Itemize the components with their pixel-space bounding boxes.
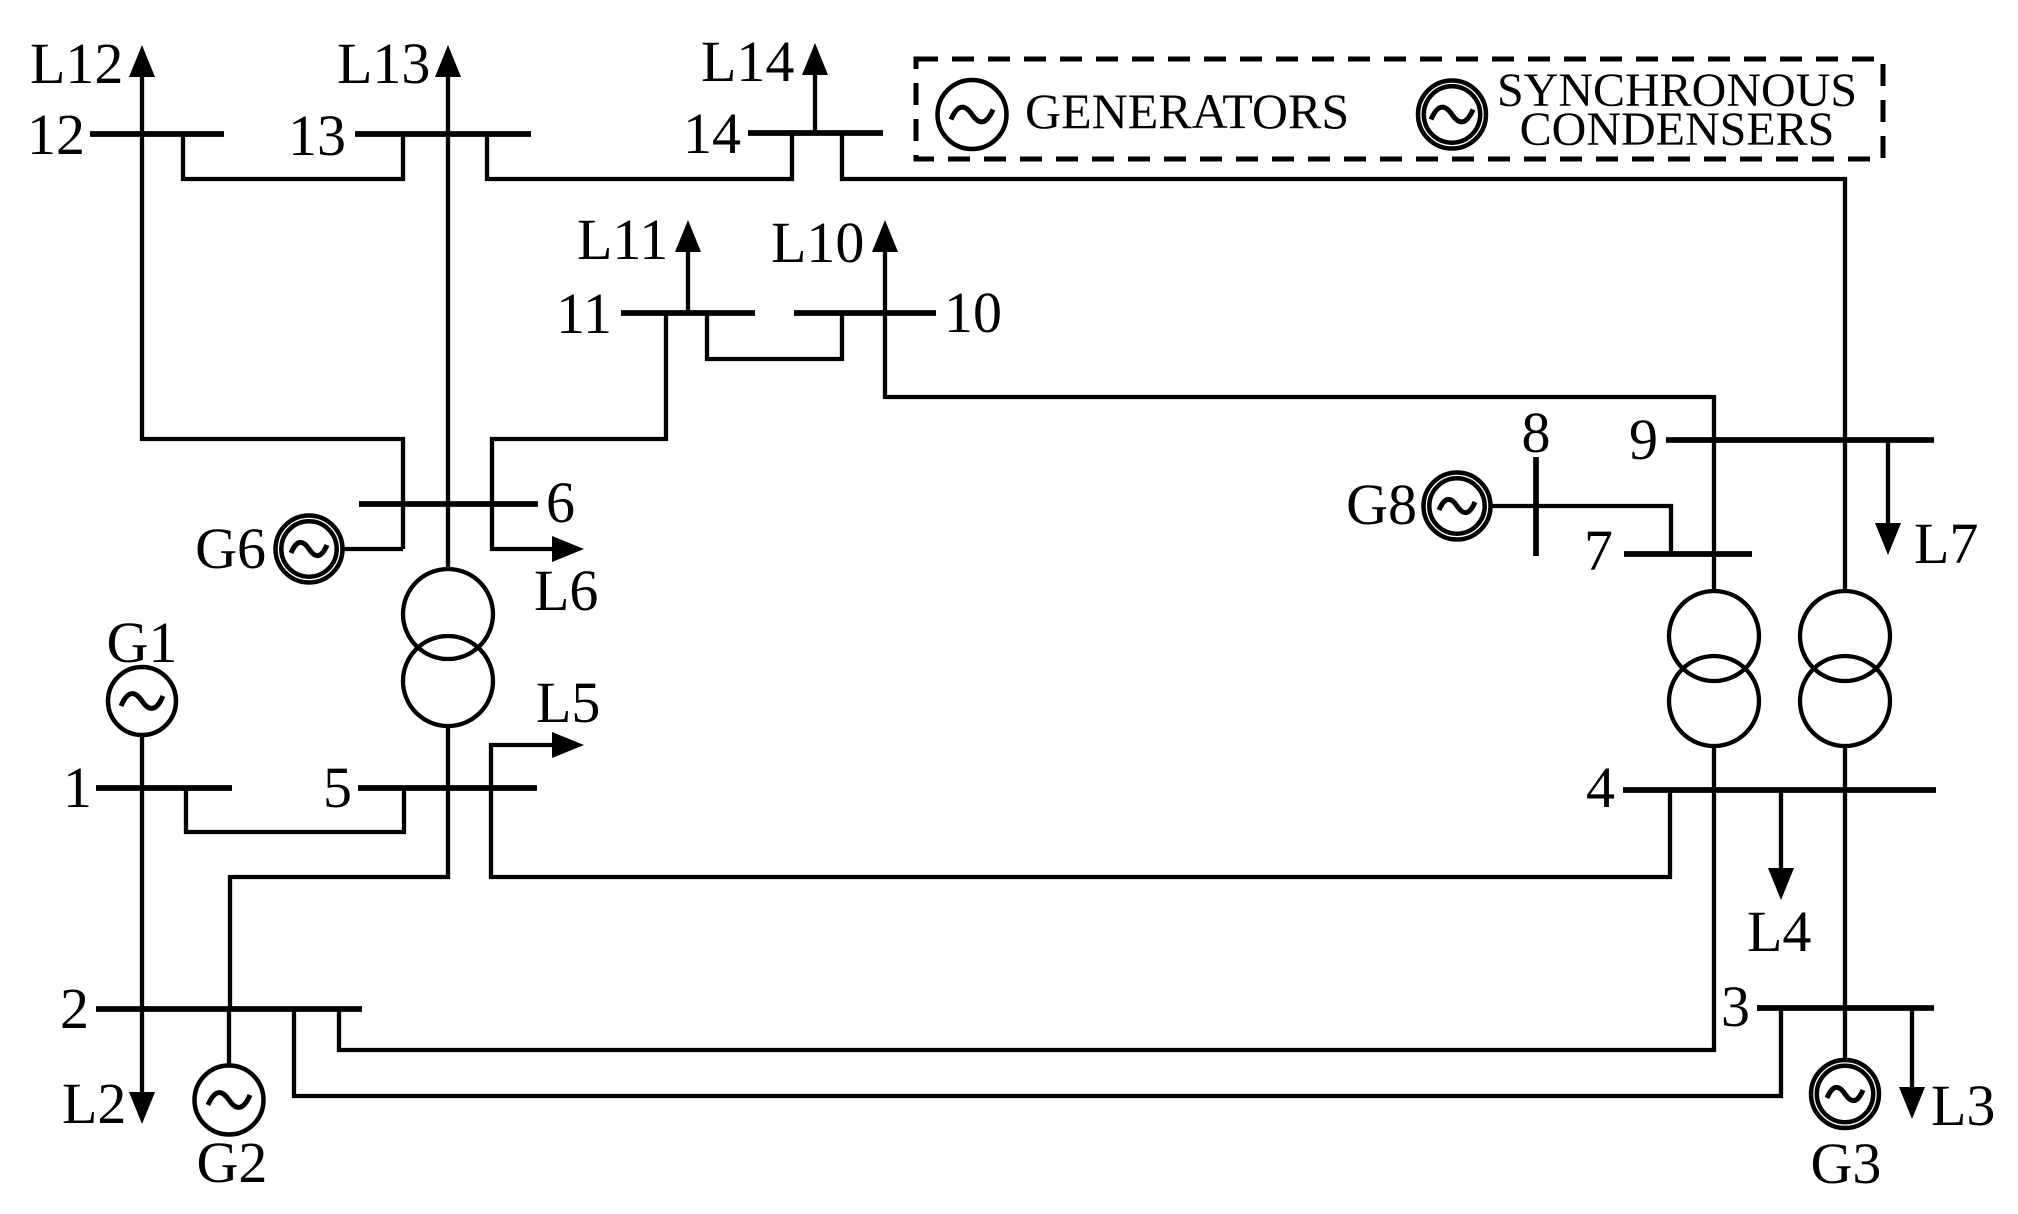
load L10 arrow <box>883 250 887 313</box>
transformer 4-7 <box>1669 591 1759 681</box>
synchronous condenser G8 <box>1424 473 1491 540</box>
wire bus 13 to transformer 5-6 <box>446 134 450 569</box>
svg-text:L11: L11 <box>577 207 668 272</box>
wire 11-10 tie <box>707 313 842 359</box>
load L5 arrow <box>491 745 556 788</box>
generator G2 <box>195 1066 264 1135</box>
svg-text:9: 9 <box>1629 407 1658 472</box>
svg-text:13: 13 <box>288 103 346 168</box>
svg-text:L14: L14 <box>701 29 794 94</box>
bus 10 <box>794 310 936 316</box>
svg-text:L5: L5 <box>536 670 600 735</box>
wire 1-2 line <box>140 788 144 1009</box>
svg-text:G3: G3 <box>1811 1131 1882 1196</box>
wire 2-5 line <box>230 788 448 1009</box>
generator G1 <box>108 667 176 735</box>
svg-text:L6: L6 <box>534 558 598 623</box>
wire 2-4 line <box>339 790 1714 1050</box>
svg-text:L7: L7 <box>1914 511 1978 576</box>
svg-text:L10: L10 <box>771 210 864 275</box>
wire 4-5 line <box>491 788 1670 877</box>
wire 12-13 tie <box>183 134 403 179</box>
synchronous condenser G3 <box>1811 1060 1879 1128</box>
wire 13-14 tie <box>487 133 792 179</box>
wire 6-11 line <box>492 313 666 504</box>
svg-text:12: 12 <box>27 102 85 167</box>
svg-text:L2: L2 <box>62 1071 126 1136</box>
wire transformer 5-6 to bus 5 <box>446 726 450 788</box>
wire G6 to bus 6 <box>342 547 403 551</box>
wire 9 to transformer 4-9 <box>1843 440 1847 593</box>
svg-text:6: 6 <box>546 470 575 535</box>
legend synchronous condenser symbol <box>1418 81 1486 149</box>
wire 7 to transformer 4-7 <box>1712 554 1716 593</box>
svg-text:8: 8 <box>1522 400 1551 465</box>
wire 14-9 line <box>842 133 1845 440</box>
svg-text:G6: G6 <box>195 516 266 581</box>
wire 2-3 line <box>294 1008 1781 1096</box>
bus 2 <box>96 1006 362 1012</box>
svg-text:10: 10 <box>944 280 1002 345</box>
svg-text:L4: L4 <box>1747 899 1811 964</box>
bus 4 <box>1623 787 1936 793</box>
bus 9 <box>1666 437 1934 443</box>
load L6 arrow <box>492 504 556 549</box>
wire transformer 4-7 to bus 4 <box>1712 746 1716 790</box>
svg-text:CONDENSERS: CONDENSERS <box>1520 103 1835 156</box>
wire 3-4 line <box>1843 790 1847 1008</box>
bus 3 <box>1757 1005 1934 1011</box>
svg-text:L3: L3 <box>1931 1073 1995 1138</box>
svg-text:L12: L12 <box>30 31 123 96</box>
svg-text:G2: G2 <box>197 1130 268 1195</box>
wire 9-7 <box>1712 440 1716 554</box>
svg-text:L13: L13 <box>337 31 430 96</box>
load L3 arrow <box>1910 1008 1914 1092</box>
bus 8 (vertical) <box>1533 457 1539 556</box>
svg-text:G1: G1 <box>107 610 178 675</box>
synchronous condenser G6 <box>276 516 343 583</box>
load L12 arrow <box>140 75 144 134</box>
bus 1 <box>96 785 232 791</box>
wire 10-9 line <box>885 313 1714 440</box>
bus 7 <box>1624 551 1752 557</box>
wire G8 to bus 7 <box>1491 506 1671 554</box>
bus 14 <box>748 130 883 136</box>
wire 1-5 tie <box>186 788 404 832</box>
wire transformer 4-9 to bus 4 <box>1843 746 1847 790</box>
svg-text:5: 5 <box>323 755 352 820</box>
bus 11 <box>621 310 755 316</box>
svg-text:11: 11 <box>556 281 612 346</box>
load L2 arrow <box>140 1009 144 1097</box>
transformer 4-9 <box>1800 591 1890 681</box>
legend generator symbol <box>938 80 1007 149</box>
wire 12-6 line <box>142 134 403 549</box>
svg-text:GENERATORS: GENERATORS <box>1025 83 1349 139</box>
load L13 arrow <box>446 75 450 134</box>
bus 13 <box>355 131 531 137</box>
load L14 arrow <box>813 73 817 133</box>
legend box <box>916 59 1883 159</box>
svg-text:G8: G8 <box>1346 472 1417 537</box>
svg-text:14: 14 <box>683 101 741 166</box>
svg-text:3: 3 <box>1721 974 1750 1039</box>
load L7 arrow <box>1886 440 1890 528</box>
svg-text:2: 2 <box>60 976 89 1041</box>
bus 5 <box>358 785 537 791</box>
transformer 5-6 <box>403 569 493 659</box>
load L4 arrow <box>1779 790 1783 873</box>
svg-text:4: 4 <box>1586 755 1615 820</box>
svg-text:1: 1 <box>63 755 92 820</box>
bus 12 <box>90 131 224 137</box>
svg-text:7: 7 <box>1584 518 1613 583</box>
bus 6 <box>359 501 538 507</box>
load L11 arrow <box>686 250 690 313</box>
